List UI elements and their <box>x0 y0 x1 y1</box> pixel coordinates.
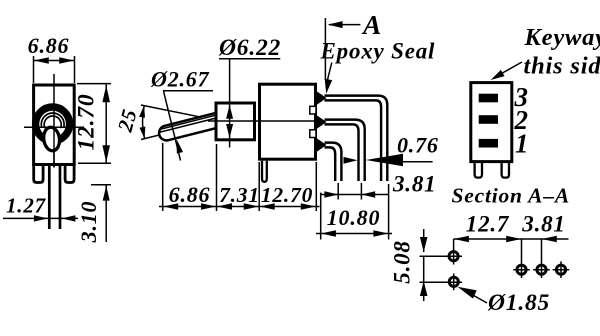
svg-text:Section A–A: Section A–A <box>452 184 571 208</box>
svg-text:3.81: 3.81 <box>392 172 436 197</box>
svg-text:3.10: 3.10 <box>76 201 101 244</box>
svg-text:10.80: 10.80 <box>327 205 381 230</box>
svg-text:12.7: 12.7 <box>466 212 510 237</box>
svg-text:12.70: 12.70 <box>261 183 313 207</box>
svg-text:7.31: 7.31 <box>219 183 260 207</box>
svg-text:Keyway: Keyway <box>524 24 600 51</box>
svg-text:1: 1 <box>515 129 529 159</box>
svg-text:0.76: 0.76 <box>397 133 439 158</box>
svg-text:3.81: 3.81 <box>521 212 565 237</box>
svg-text:Ø2.67: Ø2.67 <box>150 67 210 92</box>
svg-text:1.27: 1.27 <box>6 194 47 218</box>
svg-text:5.08: 5.08 <box>390 240 415 283</box>
svg-text:6.86: 6.86 <box>169 182 211 207</box>
svg-text:12.70: 12.70 <box>74 94 100 151</box>
svg-text:Epoxy Seal: Epoxy Seal <box>320 39 436 64</box>
svg-text:Ø1.85: Ø1.85 <box>487 290 550 316</box>
svg-text:A: A <box>361 9 382 40</box>
svg-text:6.86: 6.86 <box>28 33 70 58</box>
svg-text:this side: this side <box>524 53 600 80</box>
svg-text:Ø6.22: Ø6.22 <box>218 35 281 61</box>
